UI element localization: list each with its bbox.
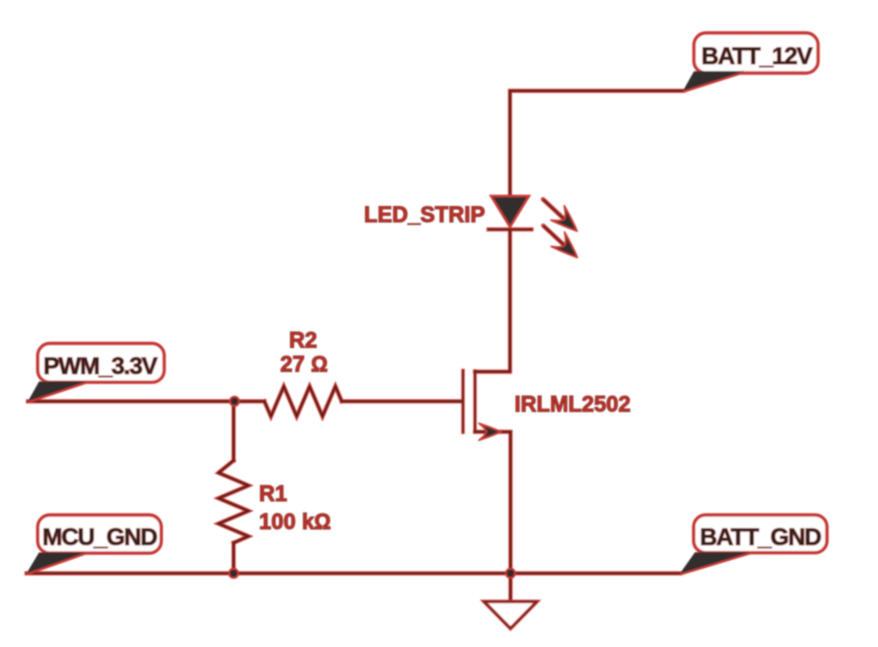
svg-text:LED_STRIP: LED_STRIP bbox=[364, 202, 485, 227]
svg-text:BATT_12V: BATT_12V bbox=[701, 43, 812, 70]
svg-text:BATT_GND: BATT_GND bbox=[700, 524, 822, 551]
svg-text:MCU_GND: MCU_GND bbox=[42, 524, 157, 551]
svg-text:100 kΩ: 100 kΩ bbox=[259, 509, 331, 534]
svg-text:R2: R2 bbox=[289, 328, 317, 353]
svg-text:R1: R1 bbox=[259, 481, 287, 506]
svg-text:IRLML2502: IRLML2502 bbox=[515, 392, 631, 417]
svg-text:PWM_3.3V: PWM_3.3V bbox=[43, 353, 157, 380]
svg-text:27 Ω: 27 Ω bbox=[280, 352, 327, 377]
